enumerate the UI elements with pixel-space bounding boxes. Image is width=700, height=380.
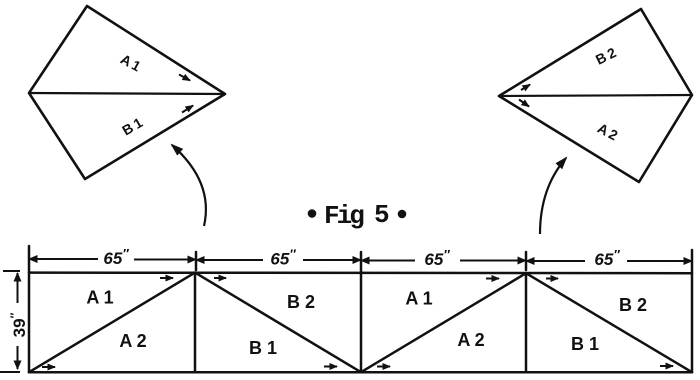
svg-text:65″: 65″: [103, 246, 129, 268]
svg-text:A 1: A 1: [405, 289, 432, 309]
svg-text:5: 5: [374, 200, 390, 230]
svg-text:A 2: A 2: [595, 120, 621, 144]
svg-text:B 1: B 1: [249, 338, 277, 358]
svg-text:B 1: B 1: [119, 114, 145, 138]
svg-text:B 2: B 2: [287, 292, 315, 312]
svg-text:B 2: B 2: [593, 44, 619, 68]
svg-text:39″: 39″: [8, 312, 29, 337]
svg-text:65″: 65″: [594, 247, 620, 269]
svg-text:Fig: Fig: [324, 201, 364, 231]
svg-text:A 1: A 1: [86, 288, 113, 308]
svg-text:65″: 65″: [424, 247, 450, 269]
svg-text:A 2: A 2: [457, 330, 484, 350]
svg-text:A 2: A 2: [119, 331, 146, 351]
svg-text:B 1: B 1: [571, 334, 599, 354]
svg-text:B 2: B 2: [619, 295, 647, 315]
svg-text:A 1: A 1: [118, 51, 144, 75]
svg-text:65″: 65″: [270, 247, 296, 269]
